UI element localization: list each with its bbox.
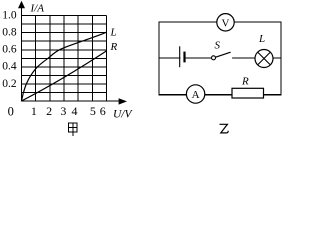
voltmeter V [217,14,234,31]
svg-text:0.4: 0.4 [2,61,17,73]
curve L (lamp) [22,32,107,101]
grid of I-U graph [22,16,107,101]
svg-text:U/V: U/V [113,109,134,121]
svg-text:L: L [258,33,265,45]
switch S [212,52,233,60]
y-axis I [18,1,25,102]
svg-text:0.6: 0.6 [2,44,17,56]
svg-text:I/A: I/A [30,3,45,15]
svg-text:L: L [110,27,117,39]
curve R (resistor line) [22,51,107,101]
x tick labels [31,104,106,118]
svg-text:1.0: 1.0 [2,9,17,21]
svg-text:0: 0 [8,105,14,119]
svg-text:0.8: 0.8 [2,27,17,39]
svg-text:R: R [241,76,249,88]
svg-text:S: S [215,40,221,52]
circuit outer wire rectangle [159,22,281,95]
battery cell [180,46,185,67]
svg-text:6: 6 [100,104,106,118]
caption yi (乙) drawn [220,124,229,133]
resistor R [232,88,264,98]
caption jia (甲) drawn [69,123,78,136]
svg-text:R: R [110,41,118,53]
svg-text:0.2: 0.2 [2,78,17,90]
lamp L [255,50,273,68]
svg-text:1: 1 [31,104,37,118]
svg-text:2: 2 [46,104,52,118]
svg-text:5: 5 [90,104,96,118]
svg-text:A: A [192,89,200,101]
x-axis U [22,98,128,104]
y tick labels [2,9,17,89]
svg-text:3: 3 [60,104,66,118]
middle wire (battery-switch-lamp branch) [159,57,281,59]
svg-text:4: 4 [72,104,78,118]
ammeter A [186,85,204,103]
svg-text:V: V [222,17,230,29]
